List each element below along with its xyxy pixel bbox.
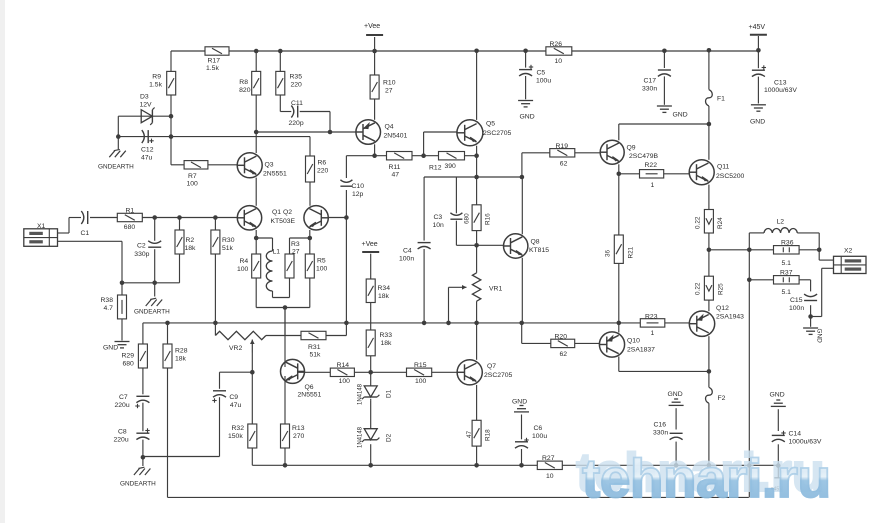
svg-text:R34: R34 xyxy=(378,285,391,292)
svg-text:Q6: Q6 xyxy=(305,384,314,391)
svg-text:R13: R13 xyxy=(292,425,305,432)
svg-text:330n: 330n xyxy=(653,430,668,437)
svg-text:R1: R1 xyxy=(126,208,135,215)
svg-text:680: 680 xyxy=(123,361,135,368)
svg-text:R24: R24 xyxy=(717,217,724,229)
svg-text:C1: C1 xyxy=(81,230,90,237)
svg-text:R12: R12 xyxy=(429,164,442,171)
svg-text:0.22: 0.22 xyxy=(695,216,702,229)
svg-text:R16: R16 xyxy=(485,213,492,225)
svg-text:1: 1 xyxy=(651,330,655,337)
svg-text:150k: 150k xyxy=(228,433,243,440)
svg-text:12p: 12p xyxy=(352,191,364,198)
svg-text:R26: R26 xyxy=(550,41,563,48)
svg-text:1N4148: 1N4148 xyxy=(358,426,364,448)
svg-text:100: 100 xyxy=(187,181,199,188)
svg-text:R9: R9 xyxy=(152,74,161,81)
svg-text:51k: 51k xyxy=(310,352,322,359)
svg-text:R22: R22 xyxy=(645,162,658,169)
svg-text:X2: X2 xyxy=(844,248,853,255)
svg-text:36: 36 xyxy=(605,249,612,257)
svg-text:12V: 12V xyxy=(140,102,153,109)
svg-text:KT503E: KT503E xyxy=(271,218,296,225)
svg-text:47: 47 xyxy=(466,430,473,438)
svg-text:GND: GND xyxy=(512,399,527,406)
svg-text:C2: C2 xyxy=(137,242,146,249)
svg-text:2SC2705: 2SC2705 xyxy=(484,372,513,379)
svg-text:GND: GND xyxy=(103,345,118,352)
svg-text:5.1: 5.1 xyxy=(782,260,792,267)
svg-text:R32: R32 xyxy=(232,425,245,432)
svg-text:4.7: 4.7 xyxy=(104,305,114,312)
svg-text:R20: R20 xyxy=(555,334,568,341)
svg-text:2SC479B: 2SC479B xyxy=(629,153,659,160)
svg-text:Q10: Q10 xyxy=(627,338,640,345)
svg-text:C12: C12 xyxy=(141,147,154,154)
svg-text:680: 680 xyxy=(464,213,471,224)
svg-text:220: 220 xyxy=(317,168,329,175)
svg-text:R11: R11 xyxy=(389,164,401,171)
svg-text:47u: 47u xyxy=(141,155,153,162)
svg-text:1.5k: 1.5k xyxy=(149,82,162,89)
svg-text:220u: 220u xyxy=(114,437,129,444)
svg-text:47u: 47u xyxy=(230,402,242,409)
svg-text:Q11: Q11 xyxy=(717,164,730,171)
svg-text:C13: C13 xyxy=(774,80,787,87)
svg-text:Q8: Q8 xyxy=(531,239,540,246)
svg-text:2SA1837: 2SA1837 xyxy=(627,347,655,354)
svg-text:R38: R38 xyxy=(101,297,114,304)
svg-text:18k: 18k xyxy=(381,340,393,347)
svg-text:X1: X1 xyxy=(37,223,46,230)
svg-text:C4: C4 xyxy=(403,248,412,255)
svg-text:R3: R3 xyxy=(291,241,300,248)
svg-text:C14: C14 xyxy=(789,431,802,438)
svg-text:18k: 18k xyxy=(185,245,197,252)
svg-text:2N5551: 2N5551 xyxy=(263,171,287,178)
svg-text:GND: GND xyxy=(770,392,785,399)
svg-text:Q4: Q4 xyxy=(385,124,394,131)
svg-text:R35: R35 xyxy=(290,74,303,81)
svg-text:C9: C9 xyxy=(229,394,238,401)
svg-text:C6: C6 xyxy=(534,425,543,432)
svg-text:100n: 100n xyxy=(789,305,804,312)
svg-text:R4: R4 xyxy=(240,258,249,265)
svg-text:R17: R17 xyxy=(208,58,221,65)
svg-text:1N4148: 1N4148 xyxy=(358,383,364,405)
svg-text:Q1 Q2: Q1 Q2 xyxy=(272,209,292,216)
svg-text:2SC2705: 2SC2705 xyxy=(483,130,512,137)
svg-text:R29: R29 xyxy=(122,353,135,360)
svg-text:GND: GND xyxy=(673,112,688,119)
svg-text:Q5: Q5 xyxy=(486,121,495,128)
svg-text:100: 100 xyxy=(316,266,328,273)
svg-text:R37: R37 xyxy=(780,270,793,277)
svg-text:F1: F1 xyxy=(717,96,725,103)
svg-text:330n: 330n xyxy=(642,86,657,93)
svg-text:100: 100 xyxy=(415,378,427,385)
svg-text:18k: 18k xyxy=(378,293,390,300)
svg-text:GND: GND xyxy=(668,391,683,398)
svg-text:1: 1 xyxy=(651,182,655,189)
svg-text:C3: C3 xyxy=(434,214,443,221)
svg-text:C7: C7 xyxy=(119,394,128,401)
svg-text:820: 820 xyxy=(239,87,251,94)
svg-text:R2: R2 xyxy=(186,237,195,244)
svg-text:270: 270 xyxy=(293,433,305,440)
svg-text:R33: R33 xyxy=(380,332,393,339)
svg-text:2SA1943: 2SA1943 xyxy=(716,314,744,321)
svg-text:R19: R19 xyxy=(556,143,569,150)
svg-text:62: 62 xyxy=(560,351,568,358)
svg-text:220: 220 xyxy=(291,82,303,89)
svg-text:2N5551: 2N5551 xyxy=(298,392,322,399)
svg-text:D2: D2 xyxy=(386,433,393,442)
svg-text:390: 390 xyxy=(445,163,457,170)
svg-text:GNDEARTH: GNDEARTH xyxy=(120,481,156,488)
svg-text:62: 62 xyxy=(560,161,568,168)
svg-text:R6: R6 xyxy=(318,160,327,167)
svg-text:5.1: 5.1 xyxy=(782,289,792,296)
svg-text:R21: R21 xyxy=(628,246,635,258)
svg-text:27: 27 xyxy=(385,88,393,95)
svg-text:680: 680 xyxy=(124,224,136,231)
svg-text:GNDEARTH: GNDEARTH xyxy=(98,164,134,171)
svg-text:Q9: Q9 xyxy=(627,145,636,152)
svg-text:GND: GND xyxy=(750,119,765,126)
svg-text:18k: 18k xyxy=(175,356,187,363)
svg-text:R30: R30 xyxy=(222,237,235,244)
svg-text:10n: 10n xyxy=(433,222,445,229)
svg-text:R5: R5 xyxy=(317,258,326,265)
svg-text:47: 47 xyxy=(392,172,400,179)
svg-text:R7: R7 xyxy=(188,173,197,180)
svg-text:1.5k: 1.5k xyxy=(206,65,219,72)
svg-text:C17: C17 xyxy=(644,78,657,85)
svg-text:330p: 330p xyxy=(134,251,149,258)
svg-text:R10: R10 xyxy=(383,80,396,87)
svg-text:100: 100 xyxy=(237,266,249,273)
svg-text:51k: 51k xyxy=(222,245,234,252)
svg-text:R25: R25 xyxy=(718,283,725,295)
svg-text:C5: C5 xyxy=(537,70,546,77)
svg-text:GND: GND xyxy=(520,114,535,121)
svg-text:VR2: VR2 xyxy=(229,345,242,352)
svg-text:R14: R14 xyxy=(337,362,350,369)
svg-text:1000u/63V: 1000u/63V xyxy=(764,87,797,94)
svg-text:100u: 100u xyxy=(536,78,551,85)
svg-text:GND: GND xyxy=(816,329,823,344)
svg-text:F2: F2 xyxy=(718,395,726,402)
svg-text:R8: R8 xyxy=(239,79,248,86)
svg-text:Q12: Q12 xyxy=(716,305,729,312)
svg-text:C15: C15 xyxy=(790,297,803,304)
svg-text:100u: 100u xyxy=(532,433,547,440)
svg-text:100: 100 xyxy=(339,378,351,385)
svg-text:Q7: Q7 xyxy=(487,363,496,370)
svg-text:2N5401: 2N5401 xyxy=(384,133,408,140)
svg-text:0.22: 0.22 xyxy=(695,282,702,295)
svg-text:+Vee: +Vee xyxy=(364,23,380,30)
svg-text:L2: L2 xyxy=(777,219,785,226)
svg-text:L1: L1 xyxy=(273,249,281,256)
svg-text:220u: 220u xyxy=(115,402,130,409)
svg-text:VR1: VR1 xyxy=(489,286,502,293)
svg-text:10: 10 xyxy=(555,58,563,65)
svg-text:C10: C10 xyxy=(352,183,365,190)
svg-text:GNDEARTH: GNDEARTH xyxy=(134,309,170,316)
svg-text:KT815: KT815 xyxy=(529,247,549,254)
svg-text:+Vee: +Vee xyxy=(362,241,378,248)
svg-text:100n: 100n xyxy=(399,256,414,263)
svg-text:220p: 220p xyxy=(289,120,304,127)
svg-text:10: 10 xyxy=(546,473,554,480)
svg-text:R31: R31 xyxy=(308,344,321,351)
svg-text:+45V: +45V xyxy=(749,24,766,31)
svg-text:2SC5200: 2SC5200 xyxy=(716,173,745,180)
svg-text:D1: D1 xyxy=(386,389,393,398)
svg-text:R18: R18 xyxy=(485,429,492,441)
svg-text:D3: D3 xyxy=(140,94,149,101)
svg-text:R27: R27 xyxy=(542,455,555,462)
svg-text:Q3: Q3 xyxy=(265,162,274,169)
svg-text:27: 27 xyxy=(292,249,300,256)
svg-text:C8: C8 xyxy=(118,429,127,436)
svg-text:R15: R15 xyxy=(414,362,427,369)
svg-text:R23: R23 xyxy=(645,314,658,321)
svg-text:C16: C16 xyxy=(654,422,667,429)
svg-text:R28: R28 xyxy=(175,348,188,355)
svg-text:C11: C11 xyxy=(291,100,303,107)
svg-text:R36: R36 xyxy=(781,240,794,247)
